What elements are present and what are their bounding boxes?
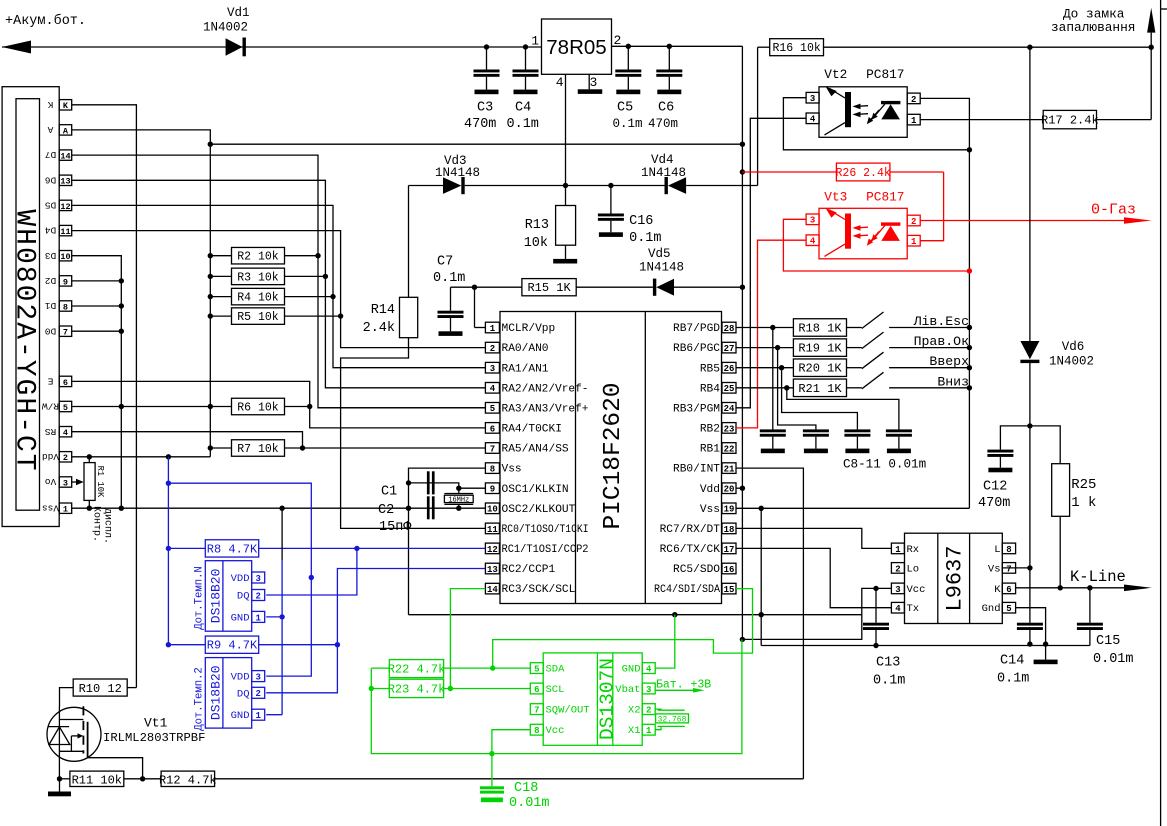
diode Vd3	[435, 154, 480, 194]
svg-text:Rx: Rx	[907, 544, 920, 556]
capacitor C18 (green)	[480, 754, 550, 811]
svg-text:OSC1/KLKIN: OSC1/KLKIN	[502, 484, 569, 496]
svg-text:RC7/RX/DT: RC7/RX/DT	[660, 524, 721, 536]
border right edge	[1161, 0, 1167, 826]
wire Vd3-Vd4 5V node	[465, 183, 666, 188]
svg-text:Vdd: Vdd	[700, 484, 720, 496]
svg-text:RA3/AN3/Vref+: RA3/AN3/Vref+	[502, 403, 589, 415]
capacitor C1	[381, 471, 435, 499]
wire Vt2 pin4 to pin24 via	[736, 118, 806, 408]
wire Vss ground rail	[761, 643, 1090, 648]
svg-text:GND: GND	[231, 612, 250, 624]
svg-text:R11 10k: R11 10k	[72, 773, 122, 787]
svg-text:SQW/OUT: SQW/OUT	[546, 705, 590, 717]
svg-text:GND: GND	[622, 664, 641, 676]
wire +12V top rail with left arrow	[2, 41, 542, 54]
svg-text:2: 2	[255, 689, 260, 699]
svg-text:5: 5	[1006, 604, 1011, 614]
wire LCD D6 to PIC	[72, 180, 486, 387]
svg-text:MCLR/Vpp: MCLR/Vpp	[502, 323, 556, 335]
wire LCD D4 to PIC	[72, 231, 486, 348]
svg-text:4: 4	[895, 604, 901, 614]
svg-text:R7 10k: R7 10k	[237, 443, 279, 456]
svg-text:RA2/AN2/Vref-: RA2/AN2/Vref-	[502, 383, 589, 395]
net arrow До замка запалювання	[1051, 7, 1155, 48]
svg-text:6: 6	[1006, 585, 1011, 595]
svg-text:4: 4	[810, 237, 816, 247]
wire LCD A to +V node	[72, 130, 211, 144]
LCD pin name labels (rotated)	[42, 99, 59, 513]
svg-text:K: K	[63, 101, 69, 111]
svg-text:Vss: Vss	[502, 464, 522, 476]
svg-text:Gnd: Gnd	[982, 603, 1001, 615]
DS1307 pin boxes (green)	[530, 663, 655, 738]
transistor Vt1 IRLML2803TRPBF	[47, 706, 205, 779]
svg-text:Tx: Tx	[907, 603, 920, 615]
svg-text:3: 3	[63, 478, 68, 488]
wire R12 to PIC pin21	[215, 778, 804, 780]
svg-text:R21 1K: R21 1K	[798, 382, 842, 396]
capacitor C4	[507, 47, 539, 132]
wire 78R05 pin4 down	[563, 74, 568, 188]
svg-text:IRLML2803TRPBF: IRLML2803TRPBF	[103, 731, 205, 745]
svg-text:R17 2.4k: R17 2.4k	[1041, 114, 1099, 128]
svg-text:DS1307N: DS1307N	[596, 658, 618, 740]
wire C10 feed	[782, 368, 858, 430]
svg-text:2: 2	[646, 706, 651, 716]
wire L9637 Vcc to +5V	[742, 586, 891, 640]
svg-text:14: 14	[487, 585, 498, 595]
wire C9 feed	[778, 348, 816, 430]
svg-text:4: 4	[810, 115, 816, 125]
svg-text:3: 3	[590, 75, 598, 90]
svg-text:D4: D4	[45, 225, 57, 236]
svg-text:R15 1K: R15 1K	[527, 281, 571, 295]
wire pin5 line	[318, 407, 485, 409]
svg-text:PIC18F2620: PIC18F2620	[600, 382, 627, 529]
svg-text:C18: C18	[514, 781, 538, 796]
svg-text:5: 5	[534, 665, 539, 675]
svg-text:OSC2/KLKOUT: OSC2/KLKOUT	[502, 504, 576, 516]
svg-text:L9637: L9637	[942, 545, 967, 611]
ground R11	[48, 792, 71, 797]
svg-text:3: 3	[810, 94, 815, 104]
svg-text:R8 4.7K: R8 4.7K	[207, 542, 258, 556]
wire PIC pin21 to R12	[736, 468, 803, 779]
wire +5V bus vertical	[740, 46, 745, 642]
wire pin15 SDA (green)	[493, 589, 753, 669]
svg-text:3: 3	[255, 673, 260, 683]
svg-text:16: 16	[724, 565, 735, 575]
svg-text:2: 2	[63, 453, 68, 463]
svg-text:RB7/PGD: RB7/PGD	[673, 323, 720, 335]
wire R14 bottom to pin11	[341, 338, 486, 529]
resistor R23 (green)	[369, 679, 531, 697]
resistor R18 with button Лів.Esc	[736, 312, 972, 336]
svg-text:7: 7	[490, 444, 495, 454]
svg-text:Vss: Vss	[700, 504, 720, 516]
svg-text:Vd6: Vd6	[1062, 340, 1085, 354]
svg-text:1: 1	[895, 545, 901, 555]
svg-text:0.1m: 0.1m	[629, 231, 661, 246]
wire LCD D2 to bus	[72, 278, 124, 283]
capacitor C14	[997, 623, 1043, 687]
svg-text:Vo: Vo	[45, 476, 57, 487]
LCD display module WH0802A-YGH-CT	[2, 87, 59, 527]
svg-text:PC817: PC817	[866, 190, 904, 205]
wire MCLR node	[451, 285, 522, 290]
svg-text:10: 10	[487, 505, 498, 515]
wire pin13 to DQ2 (blue)	[266, 569, 485, 693]
svg-text:24: 24	[724, 404, 735, 414]
svg-text:8: 8	[490, 465, 495, 475]
resistor R15	[522, 279, 576, 296]
resistor R9 (blue)	[168, 636, 340, 653]
svg-text:1: 1	[490, 324, 496, 334]
svg-text:Вверх: Вверх	[929, 354, 969, 369]
capacitor C13	[863, 588, 905, 688]
svg-text:27: 27	[724, 344, 735, 354]
svg-text:1N4002: 1N4002	[203, 21, 248, 35]
svg-text:R6 10k: R6 10k	[237, 402, 279, 415]
svg-text:78R05: 78R05	[546, 36, 606, 59]
resistor R10	[60, 679, 137, 707]
PIC right pins 28-15	[654, 322, 736, 596]
svg-text:1N4002: 1N4002	[1049, 355, 1094, 369]
svg-text:16MHz: 16MHz	[448, 497, 469, 505]
capacitor C3	[464, 47, 500, 132]
resistor R17	[1041, 110, 1099, 128]
svg-text:C12: C12	[983, 480, 1007, 495]
resistor R5	[208, 308, 341, 325]
svg-text:R25: R25	[1071, 477, 1096, 493]
wire ignition to Vd6	[1029, 47, 1031, 341]
wire Vt2 pin3 loop	[783, 98, 972, 153]
svg-text:2: 2	[490, 344, 495, 354]
wire PIC pin19 Vss	[736, 506, 969, 511]
wire LCD E to pin6	[72, 381, 486, 428]
svg-text:18: 18	[724, 525, 735, 535]
wire LCD D3 to bus	[72, 256, 124, 511]
wire PIC pin18 to L9637 Rx	[736, 528, 891, 548]
wire C8 feed	[772, 328, 774, 430]
svg-text:13: 13	[487, 565, 498, 575]
svg-text:R26 2.4k: R26 2.4k	[836, 167, 891, 180]
svg-text:SCL: SCL	[546, 684, 565, 696]
svg-text:1: 1	[911, 116, 917, 126]
svg-text:RS: RS	[45, 426, 57, 437]
diode Vd1	[203, 6, 250, 56]
wire sensor VDD branch (blue)	[168, 483, 314, 676]
LCD pin boxes	[59, 100, 71, 515]
svg-text:1: 1	[531, 34, 539, 49]
svg-text:2.4k: 2.4k	[363, 321, 395, 336]
capacitor C7	[433, 255, 465, 336]
svg-text:C7: C7	[437, 255, 453, 270]
svg-text:RA5/AN4/SS: RA5/AN4/SS	[502, 444, 569, 456]
svg-text:запалювання: запалювання	[1051, 20, 1135, 35]
wire Vd3 anode to R14	[409, 186, 444, 298]
wire Vd6 to Vs/C14	[1027, 363, 1032, 623]
svg-text:Vd4: Vd4	[651, 153, 674, 167]
svg-text:C3: C3	[477, 101, 493, 116]
wire DS1307 Vcc pin8 (green)	[492, 730, 530, 754]
svg-text:1 k: 1 k	[1071, 495, 1096, 511]
svg-text:RB3/PGM: RB3/PGM	[673, 403, 720, 415]
wire L9637 Vs to Vd6 line	[1002, 567, 1030, 569]
svg-text:25: 25	[724, 384, 735, 394]
svg-text:Прав.Ок: Прав.Ок	[914, 334, 969, 349]
svg-text:26: 26	[724, 364, 735, 374]
svg-text:22: 22	[724, 444, 735, 454]
svg-text:RB4: RB4	[700, 383, 720, 395]
wire R16 to ignition	[824, 45, 1154, 50]
resistor R4	[208, 288, 333, 305]
svg-text:19: 19	[724, 505, 735, 515]
svg-text:3: 3	[490, 364, 495, 374]
wire R15 to Vd5	[576, 286, 653, 288]
svg-text:6: 6	[534, 685, 539, 695]
svg-text:VDD: VDD	[231, 672, 250, 684]
svg-text:D2: D2	[45, 275, 57, 286]
wire DQ1 to pin12 (blue)	[266, 548, 357, 595]
svg-text:C8-11 0.01m: C8-11 0.01m	[843, 458, 926, 472]
svg-text:D5: D5	[45, 199, 57, 210]
svg-text:10k: 10k	[524, 236, 548, 251]
svg-text:R22 4.7k: R22 4.7k	[388, 662, 446, 676]
svg-text:Vss: Vss	[42, 502, 59, 513]
svg-text:17: 17	[724, 545, 735, 555]
resistor R16	[770, 39, 824, 56]
resistor R26 (red)	[742, 163, 943, 181]
wire LCD Vdd to pull-up bus	[72, 448, 211, 459]
svg-text:Vt3: Vt3	[824, 190, 847, 205]
svg-text:4: 4	[556, 75, 564, 90]
svg-text:1: 1	[255, 711, 261, 721]
svg-text:5: 5	[63, 403, 68, 413]
crystal Q1 16MHz	[444, 488, 473, 508]
optocoupler Vt3 PC817 (red)	[806, 190, 920, 259]
svg-text:8: 8	[1006, 545, 1011, 555]
svg-text:RB5: RB5	[700, 363, 720, 375]
ground 78R05	[578, 89, 603, 94]
svg-text:12: 12	[487, 545, 498, 555]
svg-text:R19 1K: R19 1K	[798, 342, 842, 356]
svg-text:C14: C14	[1000, 654, 1024, 669]
svg-text:11: 11	[60, 227, 70, 237]
capacitor C10	[844, 429, 870, 453]
wire 78R05 pin3 to ground	[588, 74, 590, 89]
svg-text:Лів.Esc: Лів.Esc	[913, 314, 969, 329]
wire Vd4 anode to R16	[686, 47, 758, 185]
svg-text:R9 4.7K: R9 4.7K	[207, 639, 258, 653]
svg-text:X2: X2	[628, 705, 641, 717]
svg-text:R13: R13	[525, 218, 549, 233]
svg-text:R20 1K: R20 1K	[798, 362, 842, 376]
svg-text:R10 12: R10 12	[79, 682, 122, 696]
wire C1 row to pin9	[409, 483, 486, 491]
wire +V switched line	[208, 142, 743, 147]
wire Vt2 pin1 to R17	[920, 119, 1043, 121]
svg-text:L: L	[994, 544, 1000, 556]
svg-text:Vs: Vs	[988, 563, 1001, 575]
svg-text:0.01m: 0.01m	[509, 796, 550, 811]
svg-text:RA0/AN0: RA0/AN0	[502, 343, 549, 355]
svg-text:R1 10K: R1 10K	[95, 466, 105, 498]
wire MCLR to pin1	[475, 287, 486, 327]
svg-text:Lo: Lo	[907, 563, 920, 575]
net 0-Газ arrow	[920, 202, 1151, 224]
wire LCD D0 to bus	[72, 329, 124, 334]
svg-text:RA4/T0CKI: RA4/T0CKI	[502, 424, 562, 436]
svg-text:Вниз: Вниз	[937, 374, 969, 389]
capacitor C2	[378, 496, 435, 535]
wire PIC pin17 to L9637 Tx	[736, 548, 891, 607]
wire +5V rail	[612, 44, 743, 49]
svg-text:C2: C2	[378, 503, 394, 518]
svg-text:1N4148: 1N4148	[641, 166, 686, 180]
svg-text:SDA: SDA	[546, 664, 566, 676]
svg-text:9: 9	[490, 485, 495, 495]
svg-text:RC6/TX/CK: RC6/TX/CK	[660, 544, 721, 556]
svg-text:7: 7	[63, 328, 68, 338]
svg-text:C13: C13	[876, 656, 900, 671]
svg-text:1: 1	[646, 726, 652, 736]
svg-text:C5: C5	[617, 101, 633, 116]
resistor R21 with button Вниз	[736, 372, 972, 396]
svg-text:R23 4.7k: R23 4.7k	[388, 682, 446, 696]
svg-text:C1: C1	[381, 485, 397, 500]
svg-text:1N4148: 1N4148	[639, 261, 684, 275]
svg-text:11: 11	[487, 525, 498, 535]
svg-text:DQ: DQ	[237, 591, 250, 603]
wire ignition rail	[758, 46, 770, 48]
svg-text:A: A	[63, 126, 69, 136]
svg-text:5: 5	[490, 404, 495, 414]
svg-text:7: 7	[534, 706, 539, 716]
svg-text:0.1m: 0.1m	[613, 117, 643, 131]
capacitor C9	[803, 429, 829, 453]
wire C11 feed	[787, 388, 899, 430]
svg-text:0.1m: 0.1m	[873, 674, 905, 689]
svg-text:R2 10k: R2 10k	[237, 251, 279, 264]
svg-text:13: 13	[60, 177, 70, 187]
svg-text:RC5/SDO: RC5/SDO	[673, 564, 720, 576]
svg-text:7: 7	[1006, 564, 1011, 574]
diode Vd5	[639, 247, 684, 296]
svg-text:А: А	[47, 124, 53, 135]
svg-text:15пФ: 15пФ	[379, 520, 412, 535]
svg-text:D3: D3	[45, 250, 57, 261]
wire sensor grounds (blue)	[266, 508, 285, 715]
svg-text:10: 10	[60, 252, 70, 262]
resistor R22 (green)	[371, 660, 530, 678]
svg-text:GND: GND	[231, 710, 250, 722]
svg-text:6: 6	[63, 378, 68, 388]
svg-text:20: 20	[724, 485, 735, 495]
svg-text:14: 14	[60, 152, 70, 162]
svg-text:DQ: DQ	[237, 688, 250, 700]
wire PIC pin20 Vdd	[736, 487, 742, 489]
svg-text:Дот.Темп.2: Дот.Темп.2	[193, 667, 205, 731]
temperature sensor DS18B20 #2 Дот.Темп.2	[193, 658, 264, 731]
svg-text:RC1/T1OSI/CCP2: RC1/T1OSI/CCP2	[502, 544, 589, 556]
wire Vt1 gate to divider node	[88, 758, 143, 779]
svg-text:4: 4	[646, 665, 652, 675]
wire Vdd to sensors (blue)	[166, 457, 171, 648]
wire LCD K to R10	[72, 105, 137, 688]
wire L9637 Gnd to ground	[1016, 608, 1049, 660]
svg-text:6: 6	[490, 424, 495, 434]
resistor R2	[208, 247, 318, 264]
svg-text:2: 2	[911, 217, 916, 227]
svg-text:WH0802A-YGH-CT: WH0802A-YGH-CT	[9, 209, 40, 472]
svg-text:X1: X1	[628, 725, 641, 737]
svg-text:Бат. +3В: Бат. +3В	[656, 679, 711, 692]
PIC left pins 1-14	[485, 322, 588, 596]
capacitor C11	[886, 429, 912, 453]
L9637 pin boxes	[891, 543, 1015, 615]
svg-text:D7: D7	[45, 149, 56, 160]
resistor R13	[524, 206, 576, 252]
svg-text:R3 10k: R3 10k	[237, 271, 279, 284]
label C8-11 0.01m	[843, 458, 926, 472]
svg-text:R14: R14	[371, 303, 395, 318]
wire Vt3 pin3 loop	[783, 219, 972, 273]
IC U3 DS1307N (green)	[543, 653, 642, 745]
svg-text:8: 8	[63, 302, 68, 312]
svg-text:PC817: PC817	[866, 67, 904, 82]
svg-text:K: K	[994, 584, 1001, 596]
svg-text:Vbat: Vbat	[615, 684, 640, 696]
resistor R3	[208, 268, 326, 285]
wire R13 bottom to ground	[565, 245, 567, 259]
svg-text:R4 10k: R4 10k	[237, 292, 279, 305]
svg-text:DS18B20: DS18B20	[208, 665, 223, 720]
svg-text:2: 2	[895, 564, 900, 574]
wire LCD D7 to PIC	[72, 155, 486, 408]
wire R11 ground stub	[59, 779, 61, 792]
svg-text:K-Line: K-Line	[1070, 568, 1126, 586]
wire LCD RS to pin7	[72, 432, 303, 448]
wire K-Line	[1016, 568, 1152, 591]
svg-text:1: 1	[255, 613, 261, 623]
svg-text:23: 23	[724, 424, 735, 434]
wire Vt3 pin1 to R26	[920, 172, 943, 241]
svg-text:диспл.: диспл.	[101, 508, 112, 544]
svg-text:RB1: RB1	[700, 444, 720, 456]
svg-text:3: 3	[646, 685, 651, 695]
diode Vd6	[1020, 340, 1094, 369]
svg-text:RA1/AN1: RA1/AN1	[502, 363, 549, 375]
voltage regulator U 78R05	[531, 19, 621, 90]
resistor R8 (blue)	[168, 540, 485, 557]
svg-text:4: 4	[63, 428, 68, 438]
svg-text:1N4148: 1N4148	[435, 166, 480, 180]
svg-text:D0: D0	[45, 325, 57, 336]
optocoupler Vt2 PC817	[806, 67, 920, 137]
svg-text:C16: C16	[629, 214, 653, 229]
svg-text:32.768: 32.768	[658, 715, 687, 724]
svg-text:E: E	[47, 375, 53, 386]
svg-text:0-Газ: 0-Газ	[1091, 202, 1136, 219]
wire Vss vertical drop	[759, 508, 764, 645]
svg-text:0.1m: 0.1m	[507, 117, 539, 132]
svg-text:1: 1	[911, 237, 917, 247]
svg-text:470m: 470m	[464, 117, 496, 132]
resistor R6	[232, 398, 310, 415]
net label +Акум.бот.	[5, 14, 86, 29]
